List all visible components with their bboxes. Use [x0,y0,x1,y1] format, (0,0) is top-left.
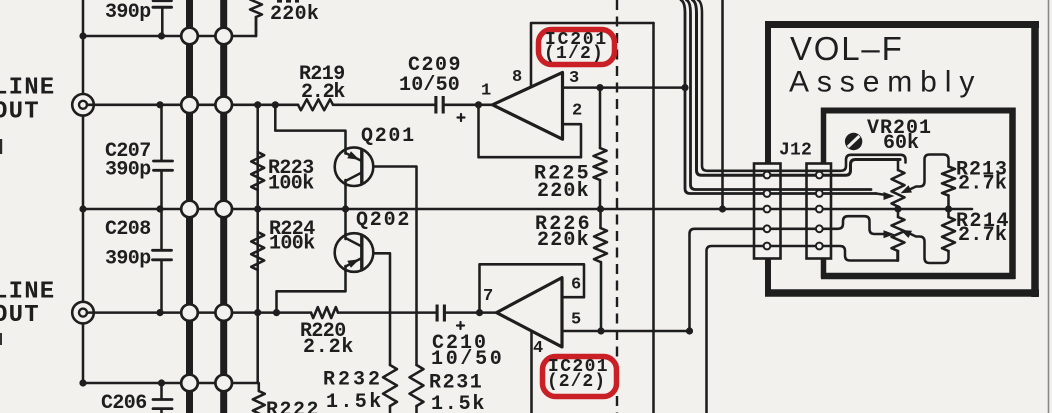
resistor R224 [251,232,264,270]
connector LINE OUT 2 (RCA jack) [72,302,94,324]
svg-text:R232: R232 [323,369,383,392]
label 2.2k (R220) [303,336,354,359]
wire - left vertical rail [82,0,85,383]
svg-text:390p: 390p [105,1,151,24]
svg-text:5: 5 [571,311,581,330]
faint page edge line right [1048,0,1050,413]
wire - Q201 collector to ground wire [344,181,347,209]
svg-text:VOL–F: VOL–F [790,30,904,67]
label 390p (C207) [105,159,151,182]
label R219 [299,63,345,86]
red highlight box IC201 (1/2) [539,30,615,65]
bus pass-through junction circles [181,28,232,392]
arrow wiper 2 right [901,230,913,238]
pin label 7 (U2) [483,287,493,306]
svg-text:3: 3 [569,69,579,88]
pin label 2 (U1) [572,102,582,121]
red highlight box IC201 (2/2) [543,357,617,397]
svg-text:390p: 390p [105,248,151,271]
label 1.5k (R231) [431,393,486,413]
svg-text:4: 4 [533,339,543,358]
wire - wiper 1 right to R213 top [909,155,949,191]
label 100k (R224) [269,232,315,255]
pin label 4 (U2) [533,339,543,358]
svg-text:2: 2 [572,102,582,121]
wire - middle-left vertical rail [256,105,259,383]
resistor R220 [311,307,338,318]
svg-text:100k: 100k [268,172,314,195]
J12 pin circles [764,172,823,250]
wire - R219 to C209 [333,104,435,107]
svg-text:1: 1 [481,82,491,101]
wire - pin 4 power lead (U2) [530,332,533,413]
pin label 5 (U2) [571,311,581,330]
svg-text:C208: C208 [105,218,151,241]
svg-text:7: 7 [483,287,493,306]
label Q201 [361,125,416,148]
svg-text:220k: 220k [270,3,319,26]
transistor Q202 [335,233,374,272]
resistor R225 [594,88,607,209]
label IC201 (1/2) [544,30,608,64]
label 2.7k (R214) [958,224,1007,247]
polarity + (C210) [457,322,464,329]
label C206 [101,392,147,413]
wire - Q201 base wire to R231 [363,167,417,366]
label C210 [432,332,488,355]
wire - pin 8 power lead and top rail to vertical [531,23,654,95]
wire - C209 to op-amp U1 apex [444,104,492,107]
VOL-F assembly outer box [765,21,1039,297]
capacitor C210 (electrolytic) [437,305,444,322]
label IC201 (2/2) [547,357,609,392]
svg-text:R231: R231 [429,372,483,395]
potentiometer VR201b [892,209,905,261]
resistor 220k (top, name cut off) [250,0,262,36]
svg-text:(1/2): (1/2) [544,44,604,64]
svg-text:2.2k: 2.2k [303,336,354,359]
resistor R231 [410,365,424,413]
label VOL-F [790,30,904,67]
resistor R226 [594,209,607,331]
capacitor C207 [154,105,173,209]
label C209 [408,54,462,77]
svg-text:J12: J12 [779,140,812,160]
capacitor C209 (electrolytic) [436,96,443,114]
ground bus 1 (left thick vertical rail) [186,0,193,413]
arrow wiper 1 right [901,185,913,193]
svg-text:2.2k: 2.2k [301,81,345,104]
wire - pin5 riser to J12 row4 and wiper 2 feed [690,216,887,331]
transistor Q201 [335,147,374,186]
label R213 [956,159,1008,182]
svg-text:10/50: 10/50 [399,74,460,97]
label R225 [534,163,591,186]
wire - Q202 emitter path to LINE OUT 2 node [277,268,346,313]
label OUT (2) [0,302,40,329]
wire - shield pair line upper (row1) hook to VR201 top [698,0,906,171]
wire - bottom horizontal (y=383) [83,383,259,391]
pin label 6 (U2) [571,276,581,295]
connector LINE OUT 1 (RCA jack) [72,94,94,116]
wire - Q202 base wire to R232 [363,253,390,365]
wire - wiper 2 right to R214 bottom [909,233,949,263]
svg-text:8: 8 [512,68,522,87]
svg-text:2.7k: 2.7k [958,224,1007,247]
label 10/50 (C209) [399,74,460,97]
label Q202 [356,209,411,232]
arrow wiper 2 left [884,230,895,238]
label C207 [105,140,151,163]
svg-text:10/50: 10/50 [431,348,505,371]
wire - R220 to C210 [338,311,437,314]
polarity + (C209) [458,114,465,121]
wire - U2 feedback loop pin7 to pin6 [480,264,585,312]
label 220k (R225) [537,180,590,203]
svg-text:R222: R222 [266,399,320,413]
pin label 3 (U1) [569,69,579,88]
svg-text:Q202: Q202 [356,209,411,232]
label R232 [323,369,383,392]
label R222 [266,399,320,413]
svg-text:390p: 390p [105,159,151,182]
svg-text:OUT: OUT [0,302,40,329]
label 220k (R226) [537,229,590,252]
label OUT (1) [0,98,40,125]
arrow wiper 1 left [884,192,895,200]
label LINE (1) [0,75,55,102]
svg-text:220k: 220k [537,180,590,203]
svg-text:C206: C206 [101,392,147,413]
label 2.2k (R219) [301,81,345,104]
wire - LINE OUT 1 signal wire (y=104.8) [94,104,298,107]
ground bus 2 (right thick vertical rail) [220,0,227,413]
label 2.7k (R213) [958,173,1007,196]
label J12 [779,140,812,160]
resistor R219 [298,99,333,110]
wire - C210 to op-amp U2 apex [445,311,497,314]
svg-text:220k: 220k [537,229,590,252]
capacitor C206 [153,383,172,413]
svg-text:6: 6 [571,276,581,295]
svg-text:2.7k: 2.7k [958,173,1007,196]
wire - shield pair line to J12 row2 [681,0,876,194]
label 100k (R223) [268,172,314,195]
wire - vertical to ground wire (x=722.5) [721,0,724,209]
resistor R214 [942,209,955,251]
partial label cut at top edge (R221) [277,0,299,3]
svg-text:1.5k: 1.5k [326,391,384,413]
pin label 8 (U1) [512,68,522,87]
label R220 [300,320,346,343]
screw adjust symbol VR201 [845,133,862,150]
wire - U1 output pin 3 [563,86,686,89]
wire - middle ground wire (y=209) [83,208,972,211]
wire - shield pair line to J12 row1 and hook [693,0,901,175]
wire - Q201 emitter tap from node [275,105,345,152]
capacitor top 390p (name cut off) [153,1,172,36]
wire - shield pair line upper (row2) [687,0,872,190]
resistor R213 [942,167,955,210]
label R223 [268,157,314,180]
wire - LINE OUT 2 signal wire (y=312.6) [94,311,311,314]
label Assembly [789,66,982,99]
resistor R223 [251,152,264,190]
svg-text:100k: 100k [269,232,315,255]
label VR201 [867,117,932,140]
label 60k (VR201) [883,132,919,155]
pin label 1 (U1) [481,82,491,101]
connector J12 right column [807,164,832,259]
svg-text:1.5k: 1.5k [431,393,486,413]
svg-text:(2/2): (2/2) [547,372,606,392]
op-amp IC201b triangle [497,278,563,347]
label 10/50 (C210) [431,348,505,371]
partial glyph at left edge (2) [0,333,2,345]
wire - U2 output pin 5 [562,330,690,333]
label 1.5k (R232) [326,391,384,413]
wire - wiper 1 arrow line [876,194,886,196]
wire - Q202 collector to ground wire [344,209,347,237]
svg-text:Q201: Q201 [361,125,416,148]
svg-text:OUT: OUT [0,98,40,125]
label R224 [269,218,315,241]
dashed boundary line [616,0,618,413]
op-amp IC201a triangle [493,72,563,139]
label R226 [535,213,592,236]
label R214 [956,210,1010,233]
label 390p (top capacitor) [105,1,151,24]
partial glyph at left edge (1) [0,139,2,154]
label C208 [105,218,151,241]
resistor R222 (cut off at bottom) [253,391,265,413]
label 220k (top resistor) [270,3,319,26]
wire - J12 row5 from bottom edge to pot2 cold end [707,246,898,413]
label 390p (C208) [105,248,151,271]
wire - pot2 cold lead [896,251,899,261]
label R231 [429,372,483,395]
label LINE (2) [0,279,55,306]
wire - long vertical from power rail [652,23,655,413]
connector J12 left column [754,164,781,259]
resistor R232 [383,365,397,413]
wire - top horizontal (y=36) to 220k resistor [83,17,256,36]
VR-F inner box [821,108,1015,280]
svg-text:Assembly: Assembly [789,66,982,99]
capacitor C208 [153,209,172,313]
potentiometer VR201a [892,160,905,209]
wire - U1 feedback loop pin1 to pin2 [479,105,582,157]
svg-text:60k: 60k [883,132,919,155]
